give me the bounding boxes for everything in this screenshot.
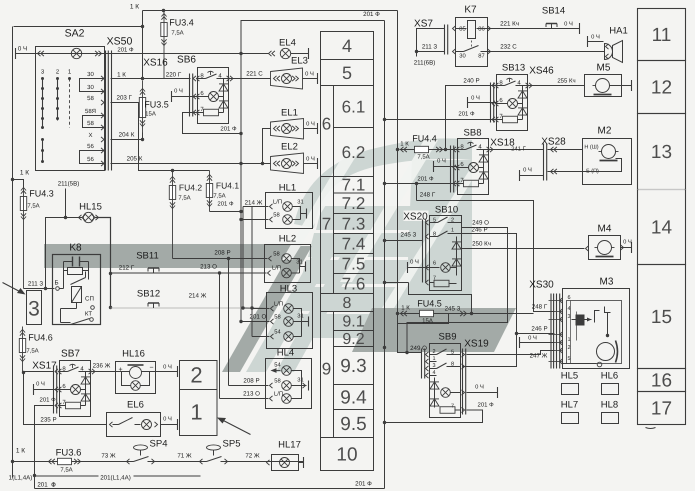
svg-text:58: 58 bbox=[87, 120, 94, 127]
fuse FU4.6 bbox=[22, 327, 24, 373]
svg-text:0 Ч: 0 Ч bbox=[623, 239, 632, 246]
svg-text:HL7: HL7 bbox=[561, 400, 578, 411]
svg-text:7.4: 7.4 bbox=[342, 234, 366, 253]
svg-text:246 Р: 246 Р bbox=[531, 326, 547, 333]
svg-text:EL4: EL4 bbox=[279, 38, 296, 49]
svg-text:SB12: SB12 bbox=[137, 289, 160, 300]
svg-text:FU4.1: FU4.1 bbox=[216, 181, 239, 191]
pointer arrow to box 1 bbox=[220, 419, 251, 435]
svg-text:201 Ф: 201 Ф bbox=[40, 397, 57, 404]
svg-text:0 Ч: 0 Ч bbox=[305, 71, 314, 78]
label box 2 bbox=[180, 361, 218, 390]
svg-text:7,5А: 7,5А bbox=[178, 195, 190, 202]
svg-text:6.1: 6.1 bbox=[342, 97, 366, 116]
svg-text:SB11: SB11 bbox=[136, 251, 159, 262]
svg-text:SB8: SB8 bbox=[464, 128, 482, 139]
svg-text:L/П: L/П bbox=[274, 301, 283, 308]
svg-text:201 Ф: 201 Ф bbox=[217, 201, 234, 208]
watermark dark bottom patch bbox=[352, 308, 516, 352]
svg-text:248 Г: 248 Г bbox=[420, 192, 436, 199]
svg-text:201 Ф: 201 Ф bbox=[220, 126, 237, 133]
wire: 203G from SA2 bbox=[111, 103, 210, 171]
svg-text:30: 30 bbox=[459, 53, 465, 60]
pointer arrow to box 3 bbox=[3, 283, 24, 294]
svg-text:58: 58 bbox=[273, 251, 279, 258]
svg-text:7,5А: 7,5А bbox=[26, 348, 38, 355]
wire: left frame vertical (1K) bbox=[12, 27, 14, 478]
wire: routing y323 bbox=[398, 314, 449, 353]
svg-text:6: 6 bbox=[567, 295, 570, 301]
svg-text:7.2: 7.2 bbox=[342, 194, 366, 213]
svg-text:241 Г: 241 Г bbox=[511, 146, 526, 153]
svg-text:201 Ф: 201 Ф bbox=[363, 11, 380, 18]
K8 coil bbox=[72, 287, 82, 303]
svg-text:208 Р: 208 Р bbox=[214, 250, 230, 257]
wire: 211(5B) drop bbox=[65, 189, 67, 218]
svg-text:246 Р: 246 Р bbox=[471, 227, 487, 234]
svg-text:247 Ж: 247 Ж bbox=[530, 353, 548, 360]
svg-text:FU3.4: FU3.4 bbox=[169, 18, 194, 28]
wire: EL6 out 0Ч bbox=[161, 424, 178, 426]
svg-text:7.1: 7.1 bbox=[342, 176, 366, 195]
svg-text:248 Г: 248 Г bbox=[532, 304, 548, 311]
SA2 pin brackets bbox=[80, 79, 105, 92]
svg-text:0 Ч: 0 Ч bbox=[528, 335, 537, 342]
svg-text:НА1: НА1 bbox=[609, 26, 627, 37]
svg-text:FU3.6: FU3.6 bbox=[56, 448, 82, 459]
svg-text:4: 4 bbox=[342, 36, 352, 56]
svg-text:0 Ч: 0 Ч bbox=[163, 416, 172, 423]
zone box 8 bbox=[321, 294, 374, 312]
svg-text:М3: М3 bbox=[600, 277, 614, 288]
svg-text:1: 1 bbox=[451, 228, 454, 234]
zone box 9.5 bbox=[334, 410, 374, 438]
M3 inner verticals bbox=[570, 301, 572, 364]
group outlines 6,7,9 bbox=[321, 86, 374, 177]
svg-text:XS20: XS20 bbox=[403, 212, 428, 223]
white stripe cuts bbox=[282, 140, 472, 308]
zone box 10 bbox=[321, 438, 374, 471]
M3 motor bbox=[597, 343, 615, 361]
svg-text:2: 2 bbox=[190, 363, 202, 388]
zone box 7.2 bbox=[334, 193, 374, 214]
wire: 245Z feed bbox=[385, 240, 423, 242]
svg-text:17: 17 bbox=[651, 399, 672, 420]
wire: SB13 pin7 201F bbox=[385, 119, 497, 121]
svg-text:30: 30 bbox=[87, 84, 94, 91]
svg-text:HL15: HL15 bbox=[79, 202, 102, 213]
wire: K7 to SB14 221Kch bbox=[488, 28, 580, 30]
svg-text:212 Г: 212 Г bbox=[119, 265, 135, 272]
zone box 6.1 bbox=[334, 86, 374, 128]
svg-text:221 Кч: 221 Кч bbox=[500, 21, 519, 28]
svg-text:1 К: 1 К bbox=[16, 448, 25, 455]
zone box 7.5 bbox=[334, 254, 374, 274]
svg-text:58: 58 bbox=[274, 314, 280, 321]
svg-text:31: 31 bbox=[297, 377, 303, 384]
wire: 205K from SA2 to EL feeds bbox=[111, 163, 271, 165]
svg-text:7,5А: 7,5А bbox=[213, 193, 225, 200]
switch-lamp unit SB8 bbox=[458, 139, 489, 195]
connector at SB13 bbox=[490, 83, 492, 123]
zone box 9.2 bbox=[334, 331, 374, 347]
wire: 246R routing bbox=[462, 234, 517, 367]
svg-text:201 Ф: 201 Ф bbox=[417, 176, 434, 183]
svg-text:7,5А: 7,5А bbox=[417, 154, 429, 161]
wire: SB8 pin4 out XS18/XS28 bbox=[489, 149, 544, 151]
svg-text:9: 9 bbox=[322, 360, 331, 379]
wire: 0Ч into SB6 pin6 bbox=[172, 96, 198, 98]
svg-text:0 Ч: 0 Ч bbox=[475, 384, 484, 391]
svg-text:236 Ж: 236 Ж bbox=[93, 363, 111, 370]
wire: SB7 pin4 out 236Zh bbox=[92, 371, 116, 373]
svg-text:201 Ф: 201 Ф bbox=[117, 47, 134, 54]
svg-text:214 Ж: 214 Ж bbox=[189, 293, 207, 300]
svg-text:0 Ч: 0 Ч bbox=[36, 381, 45, 388]
svg-text:204 К: 204 К bbox=[119, 132, 135, 139]
svg-text:Н (Ш): Н (Ш) bbox=[584, 145, 598, 151]
fuse FU3.5 bbox=[142, 81, 144, 133]
M3 switch bbox=[595, 311, 600, 323]
wire: outer top edge (1K) bbox=[14, 26, 143, 28]
svg-text:Х: Х bbox=[88, 132, 92, 139]
svg-text:15: 15 bbox=[651, 307, 672, 328]
svg-text:201(L1,4А): 201(L1,4А) bbox=[100, 475, 131, 482]
svg-text:1 К: 1 К bbox=[400, 141, 409, 148]
wire: right 1K frame vertical bbox=[397, 11, 399, 324]
svg-text:XS46: XS46 bbox=[529, 66, 554, 77]
svg-text:EL3: EL3 bbox=[291, 56, 308, 67]
wire: HL16 out 0Ч bbox=[156, 371, 178, 373]
svg-text:54: 54 bbox=[274, 363, 281, 369]
svg-text:SB9: SB9 bbox=[439, 332, 457, 343]
svg-text:9.3: 9.3 bbox=[340, 356, 366, 377]
svg-text:9.4: 9.4 bbox=[340, 388, 367, 409]
wire: 201F frame bottom bbox=[35, 488, 385, 490]
wire: 249O routing bbox=[407, 228, 508, 353]
svg-text:XS28: XS28 bbox=[541, 137, 566, 148]
svg-text:0 Ч: 0 Ч bbox=[564, 21, 573, 28]
wire: 201F bus through SA2 bbox=[16, 53, 242, 55]
svg-text:FU3.5: FU3.5 bbox=[144, 100, 169, 110]
wire: SB13 0Ч bbox=[468, 102, 497, 104]
wire: SB8 0Ч pin6 bbox=[434, 166, 458, 168]
svg-text:12: 12 bbox=[651, 78, 672, 99]
wire: 211Z to K8 bbox=[24, 288, 55, 290]
wire: SB10 0Ч bbox=[408, 267, 430, 269]
switch unit SB10 bbox=[430, 216, 462, 291]
svg-text:13: 13 bbox=[651, 142, 672, 163]
wire: 213O vertical bbox=[219, 273, 221, 399]
connector XS20 bbox=[404, 211, 429, 222]
fuse FU3.6 bbox=[58, 458, 72, 464]
label box 3 bbox=[27, 291, 42, 325]
zone box 9.3 bbox=[334, 347, 374, 385]
svg-text:1(L1,4А): 1(L1,4А) bbox=[9, 475, 33, 482]
wire: 240R from FU4.4 up to SB13 bbox=[446, 86, 497, 150]
svg-text:6.2: 6.2 bbox=[342, 143, 366, 162]
svg-text:L/П: L/П bbox=[273, 199, 282, 206]
svg-text:4: 4 bbox=[567, 306, 570, 312]
wire: 201(L1,4A) line bbox=[35, 475, 201, 477]
svg-text:HL5: HL5 bbox=[561, 371, 578, 382]
svg-text:9.1: 9.1 bbox=[342, 314, 364, 331]
svg-text:15А: 15А bbox=[145, 111, 156, 118]
svg-text:SB14: SB14 bbox=[542, 6, 565, 17]
svg-text:XS16: XS16 bbox=[143, 58, 168, 69]
svg-text:201 Ф: 201 Ф bbox=[458, 111, 475, 118]
svg-text:232 С: 232 С bbox=[500, 44, 517, 51]
svg-text:205 К: 205 К bbox=[127, 156, 143, 163]
svg-text:9.2: 9.2 bbox=[342, 331, 364, 348]
svg-text:SP5: SP5 bbox=[223, 439, 241, 450]
svg-text:HL2: HL2 bbox=[279, 234, 296, 245]
svg-text:SP4: SP4 bbox=[150, 439, 168, 450]
K8 contact bbox=[71, 278, 86, 285]
M3 thermal element bbox=[576, 315, 585, 326]
svg-text:7,5А: 7,5А bbox=[27, 203, 39, 210]
wire: XS28 lower row bbox=[551, 169, 554, 174]
wire: bottom 1K bus bbox=[11, 460, 14, 463]
svg-text:1: 1 bbox=[567, 337, 570, 343]
svg-text:245 З: 245 З bbox=[401, 232, 417, 239]
node: x240 taps bbox=[239, 52, 242, 55]
svg-text:EL2: EL2 bbox=[281, 142, 298, 153]
svg-text:208 Р: 208 Р bbox=[243, 378, 259, 385]
zone box 6.2 bbox=[334, 128, 374, 177]
wire: SB9 pin7 201F out bbox=[385, 410, 483, 423]
wire: 204K from SA2 bbox=[111, 139, 143, 141]
wire: SB10 pin7 return bbox=[385, 282, 409, 284]
svg-text:КТ: КТ bbox=[85, 311, 92, 318]
zone box 9.1 bbox=[334, 312, 374, 331]
svg-text:SB7: SB7 bbox=[61, 349, 80, 360]
svg-text:11: 11 bbox=[652, 25, 672, 46]
SB9 diodes bbox=[434, 378, 436, 408]
SB9 lamp bbox=[441, 388, 451, 398]
wire: 201F vertical x240 bbox=[240, 21, 242, 322]
K7 coil bbox=[468, 21, 476, 39]
wire: 208R vertical bbox=[228, 259, 230, 386]
svg-text:HL1: HL1 bbox=[279, 183, 296, 194]
svg-text:0 Ч: 0 Ч bbox=[437, 158, 446, 165]
svg-text:211 З: 211 З bbox=[422, 44, 438, 51]
zone box 9.4 bbox=[334, 385, 374, 410]
svg-text:235 Р: 235 Р bbox=[40, 417, 56, 424]
wire: SB8 pin7 201F bbox=[385, 183, 458, 185]
svg-text:211(6В): 211(6В) bbox=[414, 60, 436, 67]
svg-text:72 Ж: 72 Ж bbox=[245, 453, 260, 460]
wire: 1K from SA2 pin30 bbox=[111, 78, 191, 80]
svg-text:214 Ж: 214 Ж bbox=[245, 200, 263, 207]
svg-text:FU4.4: FU4.4 bbox=[412, 134, 437, 144]
SB10 pin7 bbox=[426, 280, 429, 285]
wire: EL1 feed bbox=[263, 129, 271, 164]
right zone column bbox=[638, 9, 686, 61]
svg-text:211 З: 211 З bbox=[28, 281, 44, 288]
SB9 pins bbox=[426, 352, 429, 357]
wire: FU4.1 to 201F vertical bbox=[210, 211, 242, 213]
fuse FU3.4 bbox=[163, 11, 165, 79]
fuse FU4.4 bbox=[396, 148, 399, 151]
svg-text:L/П: L/П bbox=[274, 391, 283, 398]
label box 1 bbox=[180, 390, 218, 436]
fuse FU4.5 bbox=[396, 312, 399, 315]
svg-text:K7: K7 bbox=[464, 5, 477, 16]
svg-text:0 Ч: 0 Ч bbox=[410, 259, 419, 266]
svg-text:−: − bbox=[149, 365, 153, 372]
svg-text:0 Ч: 0 Ч bbox=[523, 167, 532, 174]
svg-text:7: 7 bbox=[322, 215, 331, 234]
lamp in SA2 bbox=[71, 48, 81, 58]
wire: 1K top bus bbox=[143, 10, 398, 12]
svg-text:213 О: 213 О bbox=[200, 264, 217, 271]
svg-text:56: 56 bbox=[87, 143, 94, 150]
svg-text:58Я: 58Я bbox=[85, 108, 96, 115]
wire: 250Kch to M4 bbox=[462, 248, 585, 250]
svg-text:HL8: HL8 bbox=[601, 400, 618, 411]
svg-text:Б: Б bbox=[54, 280, 58, 287]
wire: feed to SB7 pin8 bbox=[24, 371, 54, 373]
svg-text:3: 3 bbox=[567, 314, 570, 320]
watermark right block bbox=[406, 160, 472, 308]
wire: 248G bbox=[417, 201, 555, 312]
svg-text:16: 16 bbox=[651, 371, 672, 392]
svg-text:1: 1 bbox=[190, 400, 202, 425]
svg-text:М4: М4 bbox=[598, 224, 612, 235]
svg-text:249 О: 249 О bbox=[472, 220, 489, 227]
svg-text:14: 14 bbox=[651, 218, 673, 239]
svg-text:HL4: HL4 bbox=[277, 348, 294, 359]
svg-text:58: 58 bbox=[274, 378, 280, 385]
svg-text:255 Кч: 255 Кч bbox=[557, 78, 575, 85]
svg-text:0 Ч: 0 Ч bbox=[591, 34, 600, 41]
svg-text:54: 54 bbox=[274, 330, 281, 336]
svg-text:SA2: SA2 bbox=[65, 28, 85, 40]
wire: inner 201F frame top bbox=[241, 20, 385, 22]
svg-text:1 К: 1 К bbox=[117, 72, 126, 79]
svg-text:XS30: XS30 bbox=[529, 280, 554, 291]
fuse FU4.1 bbox=[209, 171, 211, 212]
svg-text:2: 2 bbox=[567, 345, 570, 351]
svg-text:L/П: L/П bbox=[272, 265, 281, 272]
zone box 7.6 bbox=[334, 274, 374, 294]
svg-text:K8: K8 bbox=[69, 243, 82, 254]
fuse FU4.3 bbox=[23, 183, 25, 289]
switch-lamp unit SB13 bbox=[497, 75, 528, 131]
zone box 7.1 bbox=[334, 177, 374, 194]
connector at SB8 bbox=[450, 146, 452, 193]
svg-text:0 Ч: 0 Ч bbox=[471, 95, 480, 102]
svg-text:240 Р: 240 Р bbox=[463, 78, 479, 85]
svg-text:6: 6 bbox=[322, 115, 331, 134]
svg-text:73 Ж: 73 Ж bbox=[101, 453, 116, 460]
svg-text:31: 31 bbox=[297, 313, 303, 320]
wire: 212G - 213O line with SB11 bbox=[109, 272, 112, 275]
svg-text:201 Ф: 201 Ф bbox=[478, 402, 495, 409]
svg-text:FU4.2: FU4.2 bbox=[179, 183, 202, 193]
connector XS50 bbox=[105, 51, 107, 171]
svg-text:XS50: XS50 bbox=[107, 36, 133, 48]
zone box 4 bbox=[321, 32, 374, 60]
svg-text:1 К: 1 К bbox=[130, 4, 139, 11]
svg-text:3: 3 bbox=[28, 298, 40, 321]
zone box 5 bbox=[321, 60, 374, 86]
wire: SB7 pin7 201F return bbox=[35, 406, 54, 476]
svg-text:1 К: 1 К bbox=[401, 305, 410, 312]
svg-text:87: 87 bbox=[478, 53, 484, 60]
svg-text:8: 8 bbox=[343, 295, 352, 312]
svg-text:0 Ч: 0 Ч bbox=[306, 121, 315, 128]
wire: EL4 feed bbox=[241, 53, 269, 55]
SB10 lamp row bbox=[426, 265, 429, 270]
svg-text:6: 6 bbox=[433, 261, 436, 267]
wire: 235R down bbox=[24, 373, 107, 425]
wire: 201F frame right vertical bbox=[384, 21, 386, 489]
svg-text:7.3: 7.3 bbox=[342, 214, 366, 233]
svg-text:7,5A: 7,5A bbox=[171, 30, 183, 37]
watermark dark band bbox=[44, 244, 302, 268]
svg-text:SB10: SB10 bbox=[435, 205, 458, 216]
svg-text:213 О: 213 О bbox=[243, 391, 260, 398]
watermark dark diagonal bbox=[222, 246, 312, 372]
svg-text:EL1: EL1 bbox=[281, 108, 298, 119]
wire: to FU4.3 bbox=[13, 180, 24, 189]
svg-text:30: 30 bbox=[87, 71, 94, 78]
connector XS28 bbox=[543, 144, 545, 181]
svg-text:М2: М2 bbox=[598, 126, 612, 137]
svg-text:220 Г: 220 Г bbox=[166, 72, 182, 79]
svg-text:0 Ч: 0 Ч bbox=[18, 46, 27, 53]
svg-text:31: 31 bbox=[297, 199, 303, 206]
switch SA2 bbox=[36, 47, 105, 171]
wire: SB7 0Ч pin6 bbox=[34, 389, 60, 391]
svg-text:201: 201 bbox=[37, 482, 48, 489]
watermark diagonals lower-left bbox=[246, 246, 338, 372]
svg-text:245 З: 245 З bbox=[445, 306, 461, 313]
svg-text:XS19: XS19 bbox=[464, 339, 489, 350]
relay K8 bbox=[53, 255, 101, 325]
switch-lamp unit SB6 bbox=[198, 68, 229, 124]
svg-text:10: 10 bbox=[336, 445, 357, 466]
svg-text:71 Ж: 71 Ж bbox=[177, 453, 192, 460]
svg-text:211(5В): 211(5В) bbox=[58, 181, 80, 188]
svg-text:EL6: EL6 bbox=[127, 400, 144, 411]
watermark bars bbox=[316, 206, 466, 230]
svg-text:7.5: 7.5 bbox=[342, 254, 366, 273]
wire: SB6 pin7 return 201F bbox=[183, 113, 242, 134]
svg-text:58: 58 bbox=[87, 95, 94, 102]
svg-text:М5: М5 bbox=[597, 63, 611, 74]
svg-text:7,5А: 7,5А bbox=[60, 467, 72, 474]
svg-text:9.5: 9.5 bbox=[340, 414, 366, 435]
K8 capacitor bbox=[64, 261, 73, 263]
K8 lower switch bbox=[71, 319, 90, 325]
svg-text:FU4.5: FU4.5 bbox=[417, 299, 442, 309]
svg-text:221 С: 221 С bbox=[246, 71, 263, 78]
wire: 214Zh vertical to HL1 bbox=[242, 207, 244, 309]
svg-text:250 Кч: 250 Кч bbox=[472, 241, 491, 248]
svg-text:HL6: HL6 bbox=[601, 371, 618, 382]
svg-text:СП: СП bbox=[85, 296, 94, 303]
wire: 214Zh line with SB12 (faint) bbox=[109, 306, 112, 309]
svg-text:0 Ч: 0 Ч bbox=[174, 88, 183, 95]
zone box 7.3 bbox=[334, 214, 374, 234]
wire: K7 to HA1 232C bbox=[488, 51, 605, 53]
svg-text:HL17: HL17 bbox=[278, 440, 301, 451]
svg-text:56: 56 bbox=[87, 156, 94, 163]
svg-text:201 Ф: 201 Ф bbox=[355, 481, 372, 488]
